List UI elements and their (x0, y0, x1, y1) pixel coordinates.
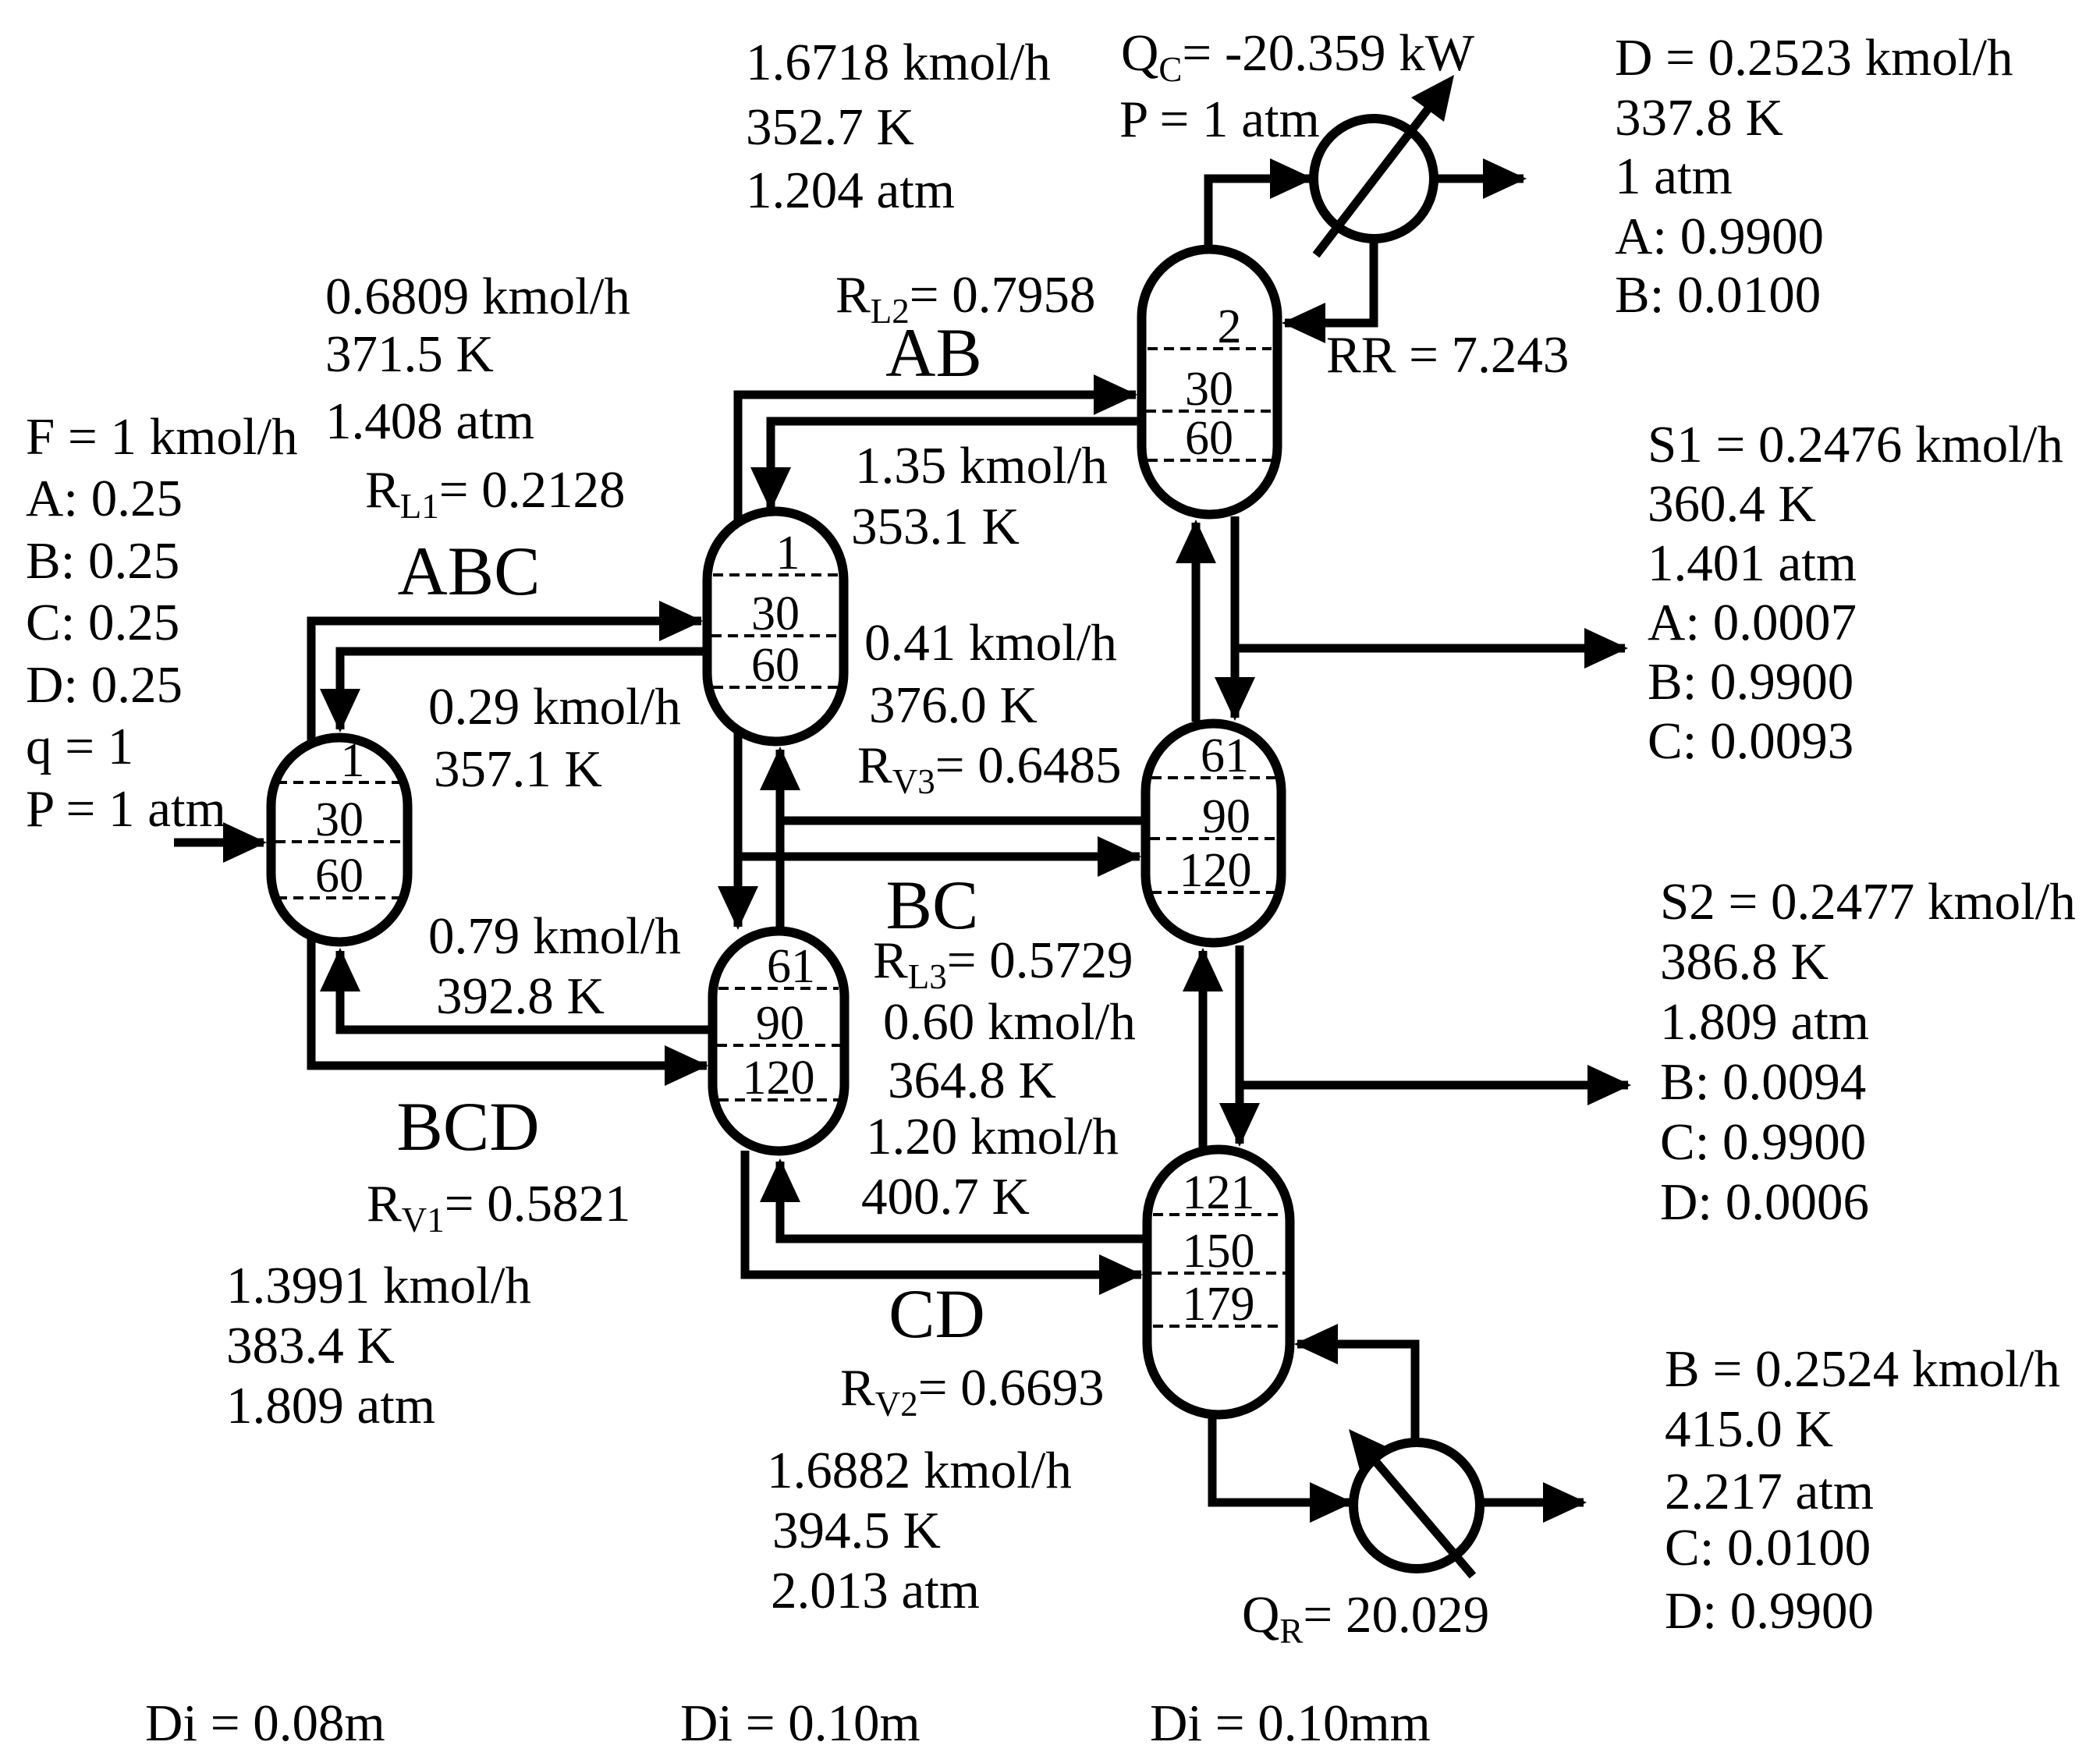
svg-text:0.60 kmol/h: 0.60 kmol/h (883, 993, 1136, 1051)
wire liquid return C4 to C2 top (771, 421, 1137, 508)
svg-text:0.41 kmol/h: 0.41 kmol/h (864, 614, 1117, 672)
reboiler (1353, 1442, 1480, 1569)
wire vapor C3 top into C2 bottom (776, 750, 785, 930)
column C5 (stages 61/90/120) (1146, 724, 1282, 943)
C4 stage lines (1148, 347, 1272, 350)
svg-text:D: 0.25: D: 0.25 (26, 656, 183, 714)
svg-text:353.1 K: 353.1 K (851, 498, 1020, 555)
condenser (1314, 119, 1434, 239)
svg-text:F = 1 kmol/h: F = 1 kmol/h (26, 408, 298, 466)
svg-text:360.4 K: 360.4 K (1648, 475, 1816, 533)
svg-text:S1 = 0.2476 kmol/h: S1 = 0.2476 kmol/h (1648, 416, 2063, 474)
condenser utility slash with arrow (1316, 101, 1434, 255)
C5 stage lines (1151, 776, 1279, 779)
column C2 (stages 1/30/60) (708, 512, 844, 742)
svg-text:30: 30 (751, 587, 800, 640)
svg-text:2.013 atm: 2.013 atm (771, 1562, 980, 1619)
svg-text:30: 30 (315, 793, 364, 846)
wire bottoms product B out of reboiler (1480, 1499, 1584, 1507)
svg-text:386.8 K: 386.8 K (1660, 933, 1829, 991)
svg-text:B: 0.25: B: 0.25 (26, 532, 179, 590)
wire BCD stream C1 bottom to C3 (311, 936, 707, 1066)
svg-text:P = 1 atm: P = 1 atm (1119, 90, 1320, 148)
column C1 (feed column, stages 1/30/60) (271, 738, 408, 942)
svg-text:ABC: ABC (398, 534, 541, 610)
svg-text:1: 1 (776, 527, 800, 580)
svg-text:121: 121 (1183, 1166, 1255, 1219)
C3 stage lines (718, 987, 839, 990)
svg-text:A: 0.25: A: 0.25 (26, 470, 183, 527)
column C4 (stages 2/30/60) (1142, 250, 1278, 515)
wire liquid C5 bottom into C6 top (1236, 945, 1244, 1144)
svg-text:C: 0.25: C: 0.25 (26, 594, 179, 651)
wire liquid return C2 to C1 top (340, 651, 703, 729)
wire reflux condenser to C4 (1285, 239, 1374, 323)
svg-text:60: 60 (751, 639, 800, 692)
svg-text:C: 0.9900: C: 0.9900 (1660, 1113, 1866, 1171)
svg-text:150: 150 (1183, 1225, 1255, 1278)
wire vapor return C3 to C1 bottom (340, 951, 708, 1030)
svg-text:61: 61 (1201, 729, 1249, 782)
svg-text:S2 = 0.2477 kmol/h: S2 = 0.2477 kmol/h (1660, 873, 2076, 931)
svg-text:1.204 atm: 1.204 atm (746, 161, 955, 219)
wire CD stream C3 bottom to C6 (745, 1151, 1141, 1275)
wire vapor return C6 to C3 bottom (780, 1162, 1143, 1239)
wire distillate D out of condenser (1434, 175, 1524, 183)
wire liquid C2 bottom into C3 top (734, 729, 743, 927)
svg-text:1.809 atm: 1.809 atm (226, 1377, 435, 1435)
wire liquid C4 bottom into C5 top (1231, 516, 1240, 718)
C2 stage lines (713, 573, 838, 576)
svg-text:90: 90 (756, 997, 804, 1050)
svg-text:61: 61 (767, 940, 815, 993)
svg-text:120: 120 (1179, 844, 1252, 897)
svg-text:1.401 atm: 1.401 atm (1648, 534, 1857, 592)
svg-text:A: 0.0007: A: 0.0007 (1648, 594, 1857, 651)
svg-text:364.8 K: 364.8 K (888, 1052, 1056, 1109)
svg-text:392.8 K: 392.8 K (436, 967, 605, 1025)
svg-text:0.6809 kmol/h: 0.6809 kmol/h (325, 268, 630, 325)
wire bottoms C6 to reboiler (1212, 1416, 1350, 1502)
reboiler utility slash with arrow (1367, 1451, 1473, 1576)
svg-text:383.4 K: 383.4 K (226, 1317, 395, 1375)
svg-text:BCD: BCD (397, 1089, 540, 1165)
wire AB stream C2 top to C4 (738, 395, 1136, 530)
svg-text:1 atm: 1 atm (1615, 147, 1733, 205)
svg-text:q = 1: q = 1 (26, 718, 133, 775)
svg-text:C: 0.0100: C: 0.0100 (1665, 1519, 1871, 1577)
column C6 (stages 121/150/179) (1148, 1150, 1290, 1415)
svg-text:1.6718 kmol/h: 1.6718 kmol/h (746, 34, 1051, 91)
wire vapor return C5 to junction (780, 817, 1146, 825)
svg-text:P = 1 atm: P = 1 atm (26, 780, 226, 838)
svg-text:D = 0.2523 kmol/h: D = 0.2523 kmol/h (1615, 29, 2013, 87)
svg-text:Di = 0.10m: Di = 0.10m (680, 1694, 921, 1752)
wire ABC stream C1 top to C2 (311, 621, 701, 749)
svg-text:400.7 K: 400.7 K (861, 1168, 1030, 1226)
svg-text:120: 120 (743, 1052, 815, 1105)
svg-text:Di = 0.10mm: Di = 0.10mm (1150, 1694, 1431, 1752)
wire overhead vapor C4 to condenser (1208, 179, 1312, 248)
svg-text:352.7 K: 352.7 K (746, 98, 914, 156)
wire vapor C6 top into C5 bottom (1199, 951, 1208, 1148)
svg-text:394.5 K: 394.5 K (772, 1502, 941, 1559)
svg-text:A: 0.9900: A: 0.9900 (1615, 208, 1824, 265)
svg-text:357.1 K: 357.1 K (434, 740, 602, 798)
svg-text:2.217 atm: 2.217 atm (1665, 1463, 1874, 1520)
wire feed F into column C1 (174, 839, 264, 847)
wire BC stream to C5 (738, 853, 1140, 861)
svg-text:376.0 K: 376.0 K (869, 676, 1038, 734)
svg-text:1.6882 kmol/h: 1.6882 kmol/h (767, 1442, 1072, 1499)
svg-text:B = 0.2524 kmol/h: B = 0.2524 kmol/h (1665, 1340, 2060, 1398)
svg-text:415.0 K: 415.0 K (1665, 1400, 1833, 1458)
svg-text:90: 90 (1202, 790, 1250, 843)
svg-text:CD: CD (889, 1276, 985, 1353)
svg-text:QR= 20.029: QR= 20.029 (1242, 1586, 1489, 1651)
svg-text:D: 0.9900: D: 0.9900 (1665, 1582, 1874, 1640)
svg-text:B: 0.0100: B: 0.0100 (1615, 266, 1821, 324)
svg-text:D: 0.0006: D: 0.0006 (1660, 1173, 1869, 1231)
wire side product S1 (1235, 644, 1625, 653)
column C3 (stages 61/90/120) (713, 931, 845, 1151)
svg-text:1.20 kmol/h: 1.20 kmol/h (866, 1108, 1119, 1165)
wire vapor C5 top into C4 bottom (1192, 523, 1201, 722)
svg-text:60: 60 (315, 850, 364, 903)
svg-text:30: 30 (1185, 363, 1233, 416)
C6 stage lines (1153, 1213, 1284, 1216)
C1 stage lines (277, 781, 402, 784)
svg-text:1.408 atm: 1.408 atm (325, 392, 534, 450)
svg-text:1.809 atm: 1.809 atm (1660, 993, 1869, 1051)
svg-text:C: 0.0093: C: 0.0093 (1648, 712, 1853, 770)
svg-text:0.29 kmol/h: 0.29 kmol/h (428, 678, 681, 736)
svg-text:RR = 7.243: RR = 7.243 (1326, 326, 1569, 384)
svg-text:179: 179 (1183, 1278, 1255, 1331)
svg-text:Di = 0.08m: Di = 0.08m (145, 1694, 385, 1752)
svg-text:60: 60 (1185, 412, 1233, 465)
svg-text:B: 0.9900: B: 0.9900 (1648, 653, 1853, 711)
svg-text:371.5 K: 371.5 K (325, 325, 494, 383)
wire boilup reboiler to C6 (1297, 1344, 1415, 1442)
svg-text:1.35 kmol/h: 1.35 kmol/h (855, 437, 1108, 495)
svg-text:B: 0.0094: B: 0.0094 (1660, 1053, 1866, 1111)
svg-text:0.79 kmol/h: 0.79 kmol/h (428, 907, 681, 965)
svg-text:1.3991 kmol/h: 1.3991 kmol/h (226, 1257, 531, 1314)
svg-text:1: 1 (341, 734, 365, 787)
svg-text:2: 2 (1218, 300, 1242, 353)
wire side product S2 (1240, 1081, 1628, 1090)
svg-text:AB: AB (885, 315, 982, 392)
svg-text:337.8 K: 337.8 K (1615, 89, 1783, 147)
